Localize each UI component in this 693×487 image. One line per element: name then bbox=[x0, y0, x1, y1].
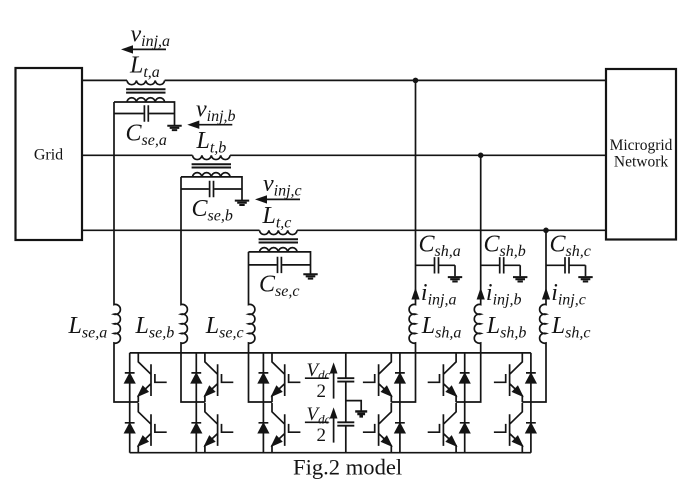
svg-text:Network: Network bbox=[614, 154, 668, 171]
svg-text:Grid: Grid bbox=[34, 147, 63, 164]
svg-text:2: 2 bbox=[317, 425, 327, 446]
svg-text:Fig.2 model: Fig.2 model bbox=[293, 454, 402, 479]
svg-text:Microgrid: Microgrid bbox=[610, 137, 673, 154]
svg-text:2: 2 bbox=[317, 381, 327, 402]
